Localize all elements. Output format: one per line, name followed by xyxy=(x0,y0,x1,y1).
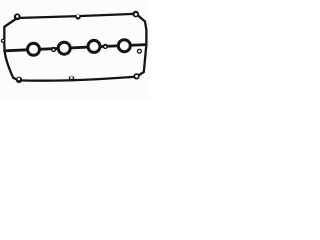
hole bottom bump xyxy=(70,76,73,79)
tube seal ring 2 xyxy=(58,42,70,54)
bolt pad bottom bump xyxy=(69,76,75,82)
bolt pad bottom-left xyxy=(16,77,22,83)
tube seal ring 1 xyxy=(28,43,40,55)
bolt pad left small xyxy=(1,39,5,43)
bolt pad top bump xyxy=(75,14,80,19)
tube seal ring 3 xyxy=(88,40,100,52)
hole bottom-left xyxy=(18,78,21,81)
gasket outer rim xyxy=(4,14,146,81)
bolt pad right small xyxy=(137,49,142,54)
bolt pad top-right xyxy=(133,11,140,18)
bolt pad bottom-right xyxy=(133,73,139,79)
hole top bump xyxy=(77,15,80,18)
hole top-left xyxy=(16,15,19,18)
background xyxy=(0,0,150,100)
hole left small xyxy=(2,40,4,42)
hole top-right xyxy=(135,13,138,16)
hole band hub 2 xyxy=(104,46,106,48)
gasket product photo xyxy=(0,0,150,100)
band hub 1 xyxy=(51,47,56,52)
hole band hub 1 xyxy=(53,49,55,51)
hole bottom-right xyxy=(135,75,138,78)
hole right small xyxy=(138,50,141,53)
middle band xyxy=(5,45,147,51)
bolt pad top-left xyxy=(14,13,21,20)
tube seal ring 4 xyxy=(118,40,130,52)
band hub 2 xyxy=(103,44,108,49)
